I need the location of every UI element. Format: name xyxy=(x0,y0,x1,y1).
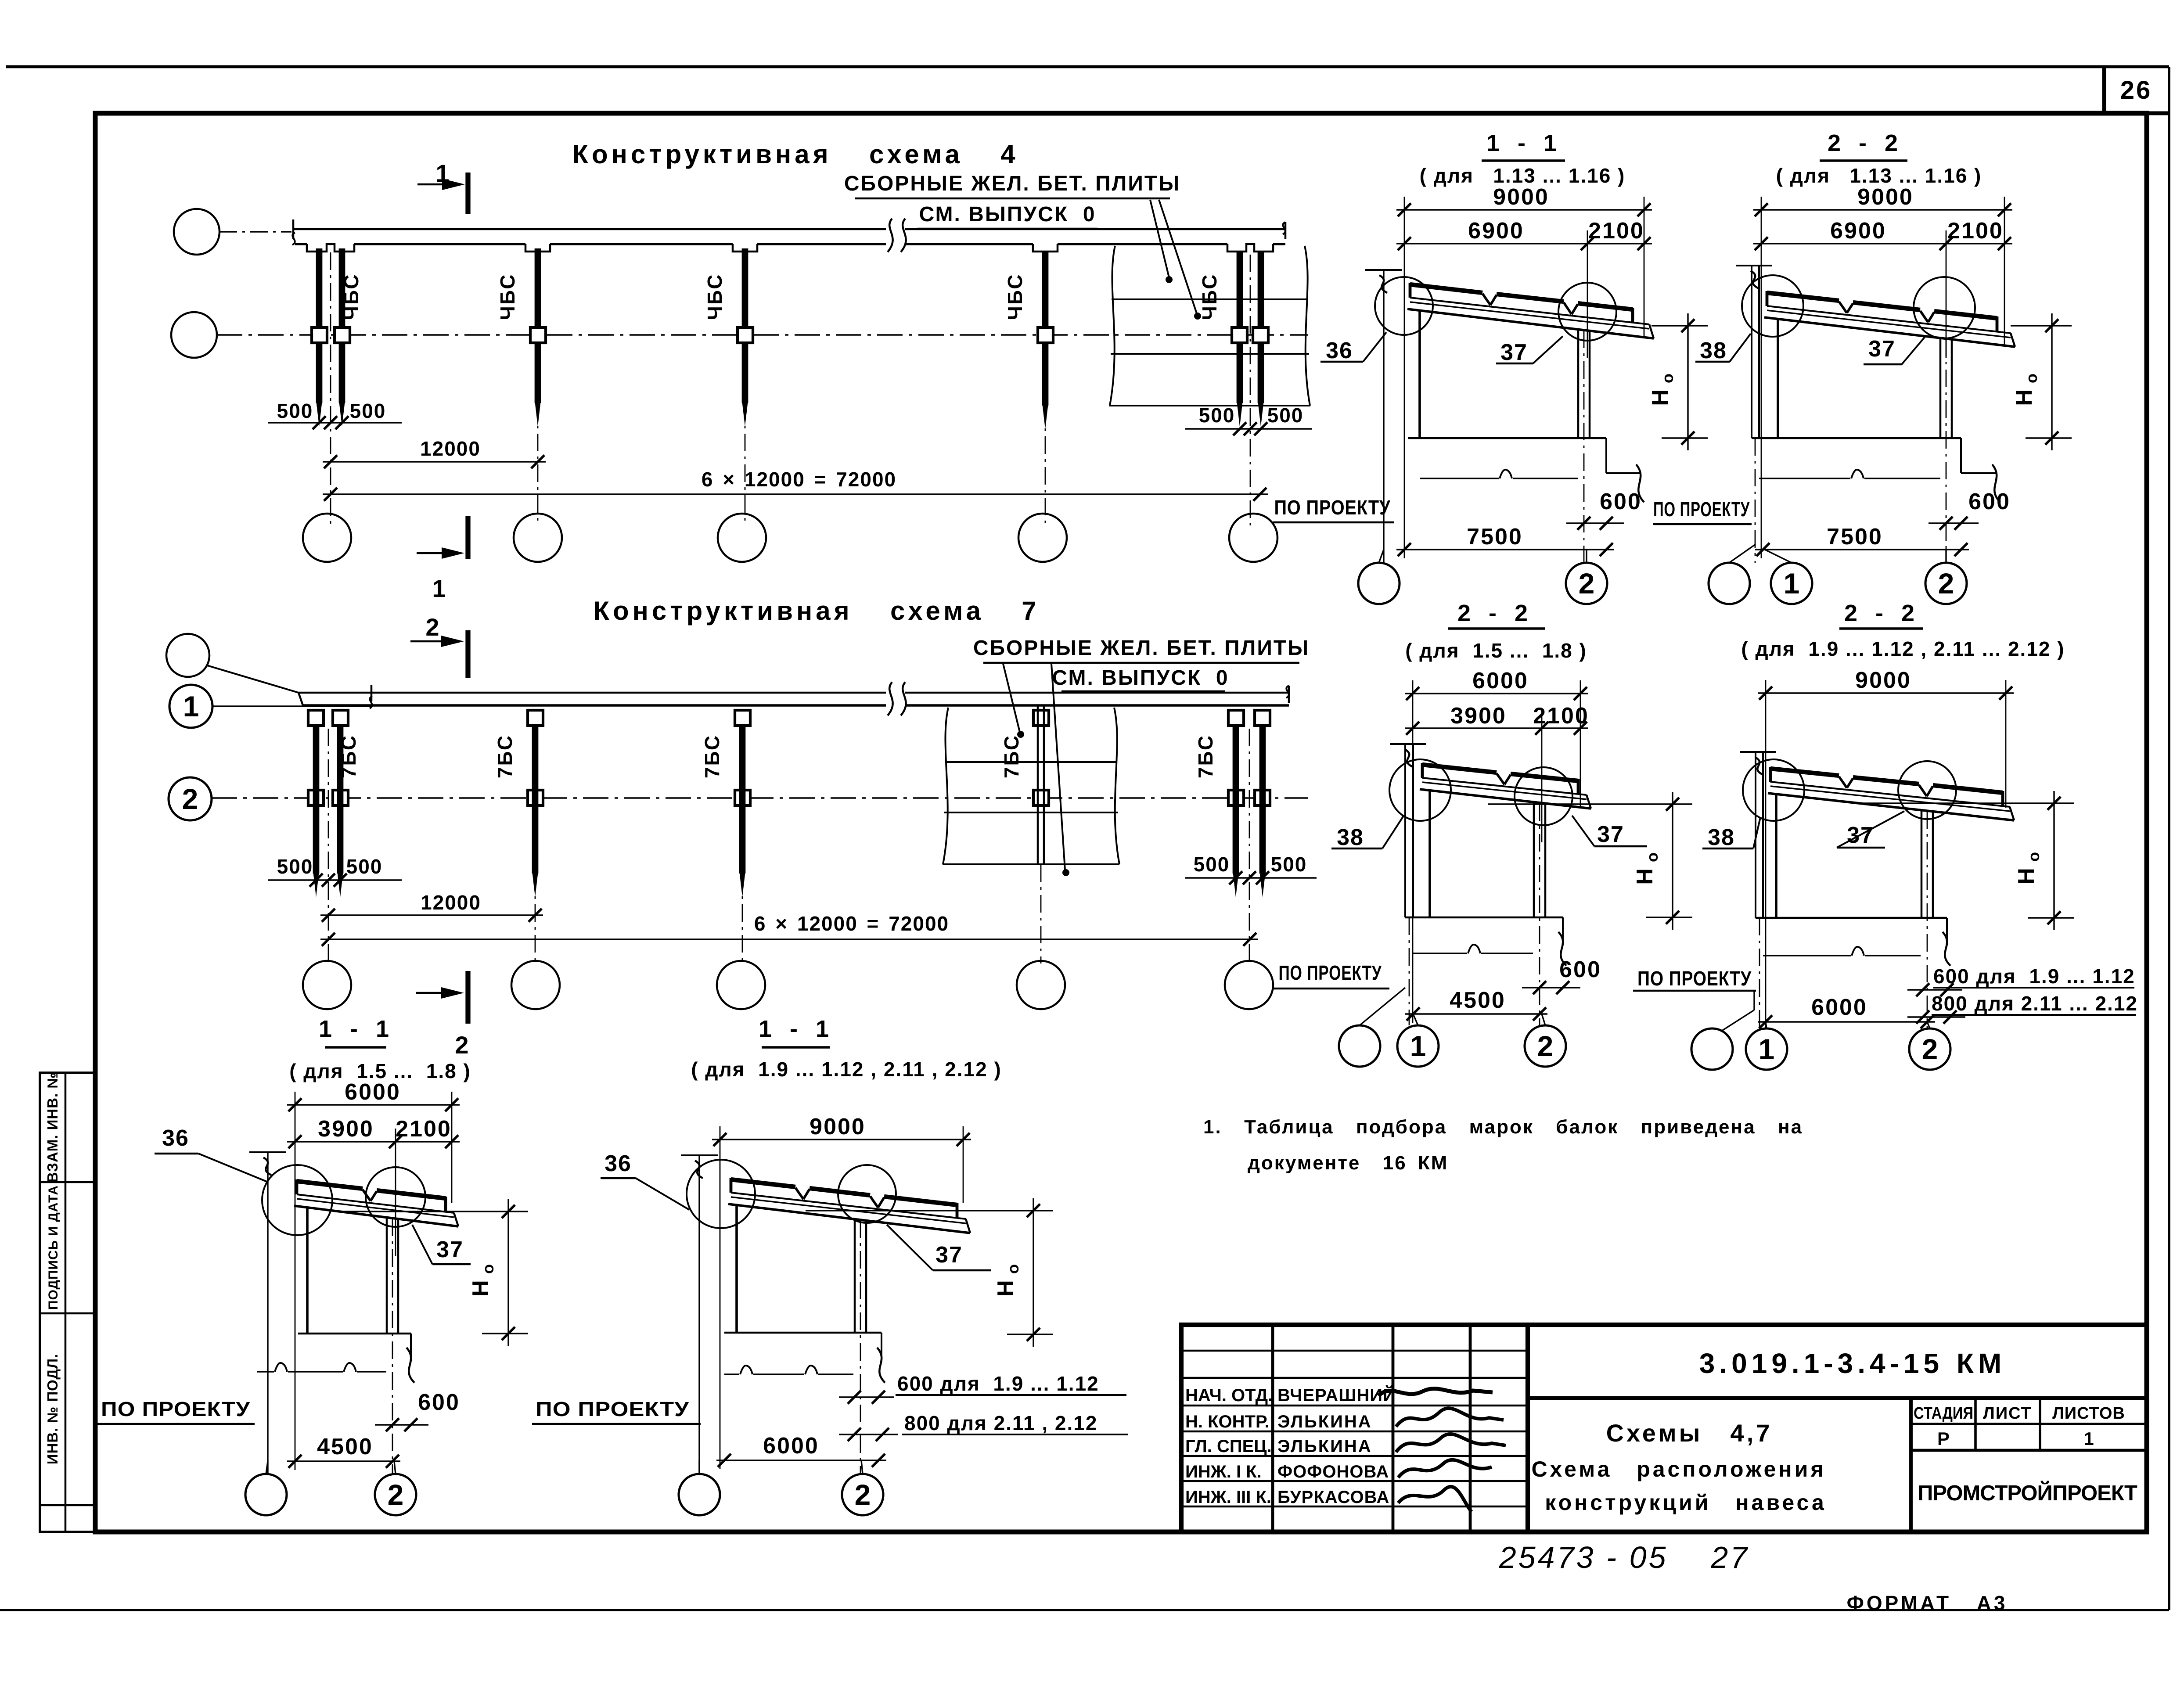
svg-text:800 для 2.11 ... 2.12: 800 для 2.11 ... 2.12 xyxy=(1932,992,2138,1015)
section 2-2 (1.5-1.8) right column axis xyxy=(1539,803,1540,1025)
svg-text:Н: Н xyxy=(1632,868,1658,885)
svg-text:38: 38 xyxy=(1337,825,1364,850)
svg-text:о: о xyxy=(1643,852,1661,862)
svg-text:СМ. ВЫПУСК 0: СМ. ВЫПУСК 0 xyxy=(1052,666,1229,690)
section 2-2 (1.13-1.16) bubble connectors xyxy=(1729,544,1756,563)
plan 2 column pair right axis xyxy=(1249,729,1250,963)
svg-text:6000: 6000 xyxy=(1811,995,1867,1020)
plan 2 dimension 6x12000=72000 xyxy=(320,938,1258,940)
section 2-2 (1.13-1.16) left wall xyxy=(1736,265,1772,266)
section 2-2 (1.5-1.8) dimension 3900-2100 xyxy=(1405,727,1588,729)
section 1-1 (1.9-2.12) bubble connectors xyxy=(698,1460,700,1474)
plan 1 beam break mark xyxy=(888,219,893,252)
svg-text:Н: Н xyxy=(2014,868,2039,884)
svg-text:ПО ПРОЕКТУ: ПО ПРОЕКТУ xyxy=(1274,496,1391,519)
section 1-1 (1.5-1.8) bubble connectors xyxy=(266,1461,268,1474)
svg-text:1: 1 xyxy=(1759,1033,1775,1065)
svg-text:7500: 7500 xyxy=(1467,524,1523,550)
svg-text:6000: 6000 xyxy=(763,1433,819,1459)
roof precast plates xyxy=(297,1181,363,1189)
svg-text:2 - 2: 2 - 2 xyxy=(1844,600,1918,626)
svg-text:3.019.1-3.4-15 КМ: 3.019.1-3.4-15 КМ xyxy=(1699,1348,2006,1379)
plan 2 node squares on grid 2 xyxy=(308,790,324,805)
section 1-1 (1.9-2.12) detail circle left xyxy=(687,1160,755,1228)
plan 2 grid line 1 xyxy=(212,705,371,707)
svg-text:1: 1 xyxy=(183,690,199,723)
svg-text:СБОРНЫЕ ЖЕЛ. БЕТ. ПЛИТЫ: СБОРНЫЕ ЖЕЛ. БЕТ. ПЛИТЫ xyxy=(973,636,1310,660)
section 2-2 (1.13-1.16) dimension 600 xyxy=(1929,522,1979,524)
svg-text:ЧБС: ЧБС xyxy=(703,273,726,320)
svg-text:ПО ПРОЕКТУ: ПО ПРОЕКТУ xyxy=(1637,967,1752,990)
svg-text:( для 1.13 ... 1.16 ): ( для 1.13 ... 1.16 ) xyxy=(1776,164,1982,187)
section 2-2 (1.13-1.16) left wall axis below base xyxy=(1755,438,1756,563)
margin table column divider xyxy=(65,1073,67,1532)
plan 1 beam left end tick xyxy=(292,219,295,239)
svg-text:ЛИСТ: ЛИСТ xyxy=(1983,1404,2032,1423)
svg-text:1 - 1: 1 - 1 xyxy=(1486,130,1560,156)
plan 2 column pair left axis xyxy=(328,729,329,963)
section 2-2 (1.13-1.16) dimension 6900-2100 xyxy=(1753,243,2012,244)
svg-text:800 для 2.11 , 2.12: 800 для 2.11 , 2.12 xyxy=(904,1412,1097,1434)
section 2-2 (1.13-1.16) grid bubbles xyxy=(1709,563,1750,604)
svg-text:ЧБС: ЧБС xyxy=(340,273,363,320)
plan 1 dimension 500-500 left xyxy=(268,422,402,423)
svg-text:1: 1 xyxy=(432,575,446,602)
section 1-1 (1.13-1.16) dimension 9000 xyxy=(1396,209,1652,210)
svg-text:9000: 9000 xyxy=(810,1114,866,1140)
section 2-2 (1.13-1.16) foundation step xyxy=(1960,438,1962,473)
svg-text:Н: Н xyxy=(993,1280,1018,1297)
svg-text:Конструктивная схема 7: Конструктивная схема 7 xyxy=(593,596,1040,626)
section 1-1 (1.13-1.16) detail circle right xyxy=(1558,283,1616,341)
svg-text:СБОРНЫЕ ЖЕЛ. БЕТ. ПЛИТЫ: СБОРНЫЕ ЖЕЛ. БЕТ. ПЛИТЫ xyxy=(844,172,1180,195)
plan 2 column 3 xyxy=(739,725,746,874)
plan 2 column taper tips xyxy=(313,873,319,897)
sheet top border line xyxy=(6,65,2169,68)
plan 2 grid circle top xyxy=(166,634,209,677)
margin table cell divider 3 xyxy=(40,1504,95,1506)
section 2-2 (1.13-1.16) base line xyxy=(1752,437,1961,439)
section 2-2 (1.13-1.16) detail circle left xyxy=(1742,275,1803,337)
plan 2 plate note leaders xyxy=(1003,664,1020,732)
svg-text:о: о xyxy=(479,1264,497,1274)
section 2-2 (1.9-2.12) base line xyxy=(1756,917,1947,919)
plan 2 precast plates region xyxy=(943,708,948,864)
section 1-1 (1.5-1.8) dimension 600 xyxy=(375,1424,428,1425)
section 1-1 (1.9-2.12) ground break line xyxy=(724,1373,853,1375)
section 2-2 (1.5-1.8) foundation step xyxy=(1562,917,1564,941)
section 2-2 (1.13-1.16) right column axis xyxy=(1946,339,1947,563)
section 2-2 (1.9-2.12) canopy column right xyxy=(1921,809,1923,918)
plan 1 column pair right axis xyxy=(1250,255,1251,525)
section 1-1 (1.9-2.12) dimension Ho xyxy=(1033,1198,1034,1347)
svg-text:ЧБС: ЧБС xyxy=(1004,273,1026,320)
roof beam xyxy=(1767,306,2011,333)
section 2-2 (1.13-1.16) detail circle right xyxy=(1914,277,1975,338)
svg-text:документе 16 КМ: документе 16 КМ xyxy=(1248,1152,1448,1174)
roof beam xyxy=(1770,782,2010,807)
svg-text:Н: Н xyxy=(2011,389,2037,406)
svg-text:ПОДПИСЬ И ДАТА: ПОДПИСЬ И ДАТА xyxy=(46,1185,61,1310)
section 1-1 (1.5-1.8) grid bubbles xyxy=(245,1474,287,1515)
svg-text:1: 1 xyxy=(1410,1030,1426,1062)
svg-text:НАЧ. ОТД.: НАЧ. ОТД. xyxy=(1185,1386,1273,1405)
plan 2 dimension 500-500 right xyxy=(1185,877,1317,878)
section 2-2 (1.5-1.8) grid bubbles xyxy=(1339,1025,1380,1067)
svg-text:4500: 4500 xyxy=(317,1434,373,1460)
svg-text:ЛИСТОВ: ЛИСТОВ xyxy=(2052,1404,2125,1423)
plan 1 grid line 1 xyxy=(219,231,291,232)
section 1-1 (1.5-1.8) dimension 3900-2100 xyxy=(287,1141,460,1142)
section 1-1 (1.5-1.8) right column axis xyxy=(392,1219,393,1474)
roof beam xyxy=(1410,298,1649,324)
svg-text:500: 500 xyxy=(277,399,313,422)
title block signature table verticals xyxy=(1271,1325,1274,1532)
section 1-1 (1.13-1.16) base line xyxy=(1408,437,1606,439)
svg-text:26: 26 xyxy=(2120,76,2152,104)
plan 2 column pair left xyxy=(313,725,320,874)
svg-text:( для 1.5 ... 1.8 ): ( для 1.5 ... 1.8 ) xyxy=(1405,639,1587,662)
plan 2 beam right end tick xyxy=(1286,686,1289,698)
svg-text:4500: 4500 xyxy=(1450,988,1506,1013)
section 2-2 (1.13-1.16) dimension 9000 xyxy=(1753,209,2012,210)
svg-text:500: 500 xyxy=(1194,853,1230,876)
svg-text:2 - 2: 2 - 2 xyxy=(1457,600,1531,626)
section 1-1 (1.5-1.8) detail circle right xyxy=(366,1167,425,1227)
svg-text:36: 36 xyxy=(1326,338,1353,363)
title block left-middle divider xyxy=(1526,1325,1530,1532)
plan 2 grid circle 2 xyxy=(169,777,212,820)
plan 1 precast plates region xyxy=(1110,246,1115,406)
svg-text:500: 500 xyxy=(350,399,386,422)
svg-text:9000: 9000 xyxy=(1493,184,1549,210)
drawing frame xyxy=(95,113,2147,1532)
svg-text:1 - 1: 1 - 1 xyxy=(319,1016,392,1042)
svg-text:2: 2 xyxy=(1922,1033,1938,1065)
plan 1 column 4 xyxy=(1042,252,1049,406)
svg-text:36: 36 xyxy=(604,1151,632,1176)
svg-text:2100: 2100 xyxy=(396,1116,452,1142)
plan 2 leader from top circle to beam xyxy=(207,665,299,693)
svg-text:Конструктивная схема 4: Конструктивная схема 4 xyxy=(572,140,1018,169)
svg-text:6900: 6900 xyxy=(1468,218,1524,244)
svg-text:Схема расположения: Схема расположения xyxy=(1531,1457,1826,1481)
svg-text:ЧБС: ЧБС xyxy=(496,273,519,320)
svg-text:37: 37 xyxy=(1597,822,1624,847)
svg-text:37: 37 xyxy=(436,1237,464,1262)
title block outline xyxy=(1181,1325,2147,1532)
section 1-1 (1.5-1.8) dimension Ho xyxy=(507,1199,509,1346)
plan 2 dimension 12000 xyxy=(320,914,543,916)
roof precast plates xyxy=(1422,765,1497,773)
svg-text:7БС: 7БС xyxy=(337,734,360,778)
svg-text:о: о xyxy=(1004,1264,1022,1274)
plan 2 beam break mark xyxy=(888,682,893,715)
svg-text:600 для 1.9 ... 1.12: 600 для 1.9 ... 1.12 xyxy=(1933,965,2135,988)
plan 1 column taper tips xyxy=(317,402,322,427)
svg-text:ПО ПРОЕКТУ: ПО ПРОЕКТУ xyxy=(1279,961,1382,984)
section 1-1 (1.9-2.12) right column axis xyxy=(860,1220,861,1474)
svg-text:600: 600 xyxy=(1968,489,2011,514)
svg-text:2: 2 xyxy=(388,1478,404,1511)
plan 1 column pair right xyxy=(1237,252,1243,403)
section 2-2 (1.9-2.12) right column axis xyxy=(1927,811,1928,1028)
svg-text:500: 500 xyxy=(277,855,313,878)
section 2-2 (1.13-1.16) ground break line xyxy=(1759,478,1940,479)
svg-text:6 × 12000 = 72000: 6 × 12000 = 72000 xyxy=(702,468,896,491)
section 2-2 (1.9-2.12) bubble connectors xyxy=(1721,1010,1754,1031)
section 1-1 (1.5-1.8) foundation step xyxy=(410,1334,412,1356)
section 1-1 (1.13-1.16) dimension 7500 xyxy=(1396,549,1614,550)
roof beam xyxy=(1422,778,1587,795)
svg-text:500: 500 xyxy=(346,855,383,878)
svg-text:1 - 1: 1 - 1 xyxy=(759,1016,832,1042)
section 2-2 (1.5-1.8) dimension 4500 xyxy=(1405,1013,1547,1014)
section 1-1 (1.13-1.16) foundation step xyxy=(1605,438,1607,473)
svg-text:Р: Р xyxy=(1937,1428,1950,1449)
svg-text:ВЗАМ. ИНВ. №: ВЗАМ. ИНВ. № xyxy=(44,1072,61,1183)
svg-text:Н: Н xyxy=(468,1280,493,1297)
plan 2 bottom grid circles xyxy=(303,961,351,1009)
section 1-1 (1.13-1.16) canopy column right xyxy=(1577,328,1580,438)
plan 1 column 2 xyxy=(535,248,541,403)
svg-text:ЭЛЬКИНА: ЭЛЬКИНА xyxy=(1277,1412,1372,1431)
svg-text:ПО ПРОЕКТУ: ПО ПРОЕКТУ xyxy=(536,1398,689,1420)
svg-text:2: 2 xyxy=(182,783,198,815)
sheet bottom border line xyxy=(0,1609,2169,1611)
section 2-2 (1.9-2.12) dimension 9000 xyxy=(1758,692,2014,694)
svg-text:6900: 6900 xyxy=(1830,218,1886,244)
section 1-1 (1.9-2.12) left wall pole xyxy=(681,1154,718,1156)
svg-text:12000: 12000 xyxy=(421,891,481,914)
svg-text:2: 2 xyxy=(1537,1030,1554,1062)
section 2-2 (1.5-1.8) left wall xyxy=(1390,743,1426,745)
svg-text:ЧБС: ЧБС xyxy=(1198,273,1221,320)
section 2-2 (1.5-1.8) dimension Ho xyxy=(1672,792,1673,930)
section 1-1 (1.9-2.12) detail circle right xyxy=(838,1165,896,1223)
roof precast plates xyxy=(1410,284,1482,293)
svg-text:37: 37 xyxy=(935,1242,963,1268)
section 1-1 (1.13-1.16) canopy column left xyxy=(1418,310,1421,438)
svg-text:Схемы 4,7: Схемы 4,7 xyxy=(1606,1419,1773,1447)
svg-text:о: о xyxy=(2025,852,2043,862)
section 1-1 (1.5-1.8) dimension 4500 xyxy=(287,1460,400,1462)
svg-text:37: 37 xyxy=(1500,340,1528,365)
title block signature scribbles xyxy=(1378,1389,1493,1396)
svg-text:2: 2 xyxy=(455,1031,468,1059)
section 2-2 (1.5-1.8) dimension 600 xyxy=(1522,987,1580,988)
svg-text:Н: Н xyxy=(1648,389,1673,406)
section 2-2 (1.5-1.8) bubble connectors xyxy=(1360,988,1405,1025)
section 1-1 (1.9-2.12) dimension 6000 xyxy=(716,1460,886,1461)
section 2-2 (1.5-1.8) detail circle right xyxy=(1515,767,1572,825)
svg-text:6 × 12000 = 72000: 6 × 12000 = 72000 xyxy=(754,912,949,935)
svg-text:о: о xyxy=(2022,374,2040,383)
plan 2 beam top chord xyxy=(299,692,886,694)
section 1-1 (1.5-1.8) canopy column left xyxy=(306,1208,309,1334)
section 1-1 (1.5-1.8) detail circle left xyxy=(262,1165,332,1235)
svg-text:2: 2 xyxy=(855,1478,871,1511)
svg-text:36: 36 xyxy=(162,1125,189,1151)
svg-text:25473 - 05 27: 25473 - 05 27 xyxy=(1499,1540,1749,1575)
svg-text:2100: 2100 xyxy=(1947,218,2004,244)
svg-text:2: 2 xyxy=(425,613,439,641)
svg-text:500: 500 xyxy=(1267,404,1304,427)
svg-text:ИНВ. № ПОДЛ.: ИНВ. № ПОДЛ. xyxy=(44,1354,61,1464)
svg-text:ЭЛЬКИНА: ЭЛЬКИНА xyxy=(1277,1437,1372,1456)
svg-text:конструкций навеса: конструкций навеса xyxy=(1545,1490,1827,1515)
plan 1 column 3 xyxy=(742,248,748,403)
section 1-1 (1.5-1.8) canopy column right xyxy=(386,1217,388,1334)
plan 1 plate note leaders xyxy=(1150,200,1169,277)
section 2-2 (1.13-1.16) dimension 7500 xyxy=(1755,549,1969,550)
section 2-2 (1.9-2.12) ground break line xyxy=(1763,955,1921,956)
section 2-2 (1.9-2.12) dimension 6000 xyxy=(1758,1021,1935,1022)
svg-text:6000: 6000 xyxy=(345,1079,401,1105)
svg-text:7500: 7500 xyxy=(1827,524,1883,550)
section 2-2 (1.5-1.8) ground break line xyxy=(1413,953,1533,954)
margin table cell divider 1 xyxy=(40,1181,95,1183)
section 1-1 (1.13-1.16) bubble connectors xyxy=(1379,550,1384,563)
section 2-2 (1.13-1.16) canopy column right xyxy=(1939,337,1942,438)
section 1-1 (1.13-1.16) ground break line xyxy=(1420,478,1578,479)
svg-text:СМ. ВЫПУСК 0: СМ. ВЫПУСК 0 xyxy=(919,203,1096,226)
title block doc cell divider xyxy=(1528,1396,2147,1400)
svg-text:3900: 3900 xyxy=(1450,703,1507,729)
svg-text:ПО ПРОЕКТУ: ПО ПРОЕКТУ xyxy=(1653,498,1750,521)
section 1-1 (1.13-1.16) detail circle left xyxy=(1375,277,1433,335)
svg-text:ПРОМСТРОЙПРОЕКТ: ПРОМСТРОЙПРОЕКТ xyxy=(1918,1481,2137,1505)
section 1-1 (1.9-2.12) grid bubbles xyxy=(679,1474,720,1515)
section 2-2 (1.9-2.12) grid bubbles xyxy=(1691,1028,1733,1070)
section 2-2 (1.9-2.12) canopy column left xyxy=(1775,794,1777,918)
svg-text:9000: 9000 xyxy=(1855,668,1911,693)
svg-text:38: 38 xyxy=(1708,825,1735,850)
svg-text:7БС: 7БС xyxy=(493,734,516,778)
plan 1 beam top chord xyxy=(293,228,886,230)
margin table cell divider 2 xyxy=(40,1312,95,1315)
svg-text:Н. КОНТР.: Н. КОНТР. xyxy=(1185,1412,1270,1431)
roof beam xyxy=(297,1194,454,1213)
plan 2 beam bottom chord xyxy=(303,704,886,707)
plan 1 beam bottom chord with notches xyxy=(295,243,307,245)
svg-text:7БС: 7БС xyxy=(1194,734,1217,778)
plan 2 node squares under beam xyxy=(308,710,324,726)
section 2-2 (1.5-1.8) canopy column left xyxy=(1428,791,1431,917)
section 2-2 (1.9-2.12) dimension Ho xyxy=(2053,791,2054,930)
plan 1 section mark 1 bottom xyxy=(417,552,443,554)
plan 2 beam left end xyxy=(299,693,303,705)
section 1-1 (1.9-2.12) foundation step xyxy=(881,1333,882,1356)
section 1-1 (1.13-1.16) dimension 6900-2100 xyxy=(1396,243,1652,244)
plan 1 beam right end tick xyxy=(1283,222,1285,234)
svg-text:ГЛ. СПЕЦ.: ГЛ. СПЕЦ. xyxy=(1185,1437,1272,1456)
svg-text:ФОРМАТ А3: ФОРМАТ А3 xyxy=(1847,1592,2008,1614)
svg-text:600: 600 xyxy=(1600,489,1642,514)
section 1-1 (1.13-1.16) left wall pole xyxy=(1365,269,1402,271)
plan 1 grid line 2 xyxy=(217,334,1308,335)
svg-text:1. Таблица подбора марок б: 1. Таблица подбора марок балок приведена… xyxy=(1203,1116,1803,1138)
svg-text:500: 500 xyxy=(1199,404,1235,427)
section 2-2 (1.5-1.8) canopy column right xyxy=(1533,801,1535,917)
plan 2 column pair right xyxy=(1233,725,1239,874)
svg-text:600 для 1.9 ... 1.12: 600 для 1.9 ... 1.12 xyxy=(897,1372,1099,1395)
svg-text:ФОФОНОВА: ФОФОНОВА xyxy=(1277,1462,1389,1481)
svg-text:3900: 3900 xyxy=(318,1116,374,1142)
plan 1 column pair left xyxy=(316,248,323,403)
plan 1 grid circle row 1 xyxy=(174,209,219,255)
svg-text:12000: 12000 xyxy=(420,437,481,460)
section 1-1 (1.13-1.16) right column axis xyxy=(1583,331,1585,563)
sheet right border line xyxy=(2168,67,2170,1610)
roof beam xyxy=(731,1193,966,1219)
title block signature table rows xyxy=(1181,1350,1528,1352)
svg-text:9000: 9000 xyxy=(1857,184,1914,210)
plan 2 column 2 xyxy=(532,725,539,874)
section 2-2 (1.9-2.12) left wall xyxy=(1740,751,1776,753)
svg-text:ПО ПРОЕКТУ: ПО ПРОЕКТУ xyxy=(101,1398,250,1420)
svg-text:38: 38 xyxy=(1700,338,1727,363)
section 1-1 (1.9-2.12) canopy column left xyxy=(735,1205,738,1333)
svg-text:600: 600 xyxy=(418,1390,460,1415)
section 1-1 (1.9-2.12) dimension 9000 xyxy=(712,1139,971,1140)
roof precast plates xyxy=(1767,293,1839,301)
section 2-2 (1.9-2.12) detail circle left xyxy=(1743,759,1804,821)
plan 1 dimension 500-500 right xyxy=(1185,428,1312,429)
section 1-1 (1.9-2.12) canopy column right xyxy=(854,1219,856,1333)
svg-text:СТАДИЯ: СТАДИЯ xyxy=(1914,1404,1973,1423)
plan 1 grid circle row 2 xyxy=(171,312,217,358)
page number box 26 xyxy=(2102,67,2106,113)
section 2-2 (1.5-1.8) base line xyxy=(1405,917,1563,919)
section 1-1 (1.5-1.8) left wall pole xyxy=(249,1151,286,1153)
svg-text:1: 1 xyxy=(1784,567,1800,600)
svg-text:7БС: 7БС xyxy=(701,734,723,778)
svg-text:ИНЖ. I К.: ИНЖ. I К. xyxy=(1185,1462,1262,1481)
section 1-1 (1.13-1.16) dimension 600 xyxy=(1566,522,1624,524)
section 1-1 (1.13-1.16) grid bubbles xyxy=(1358,563,1400,604)
section 2-2 (1.9-2.12) detail circle right xyxy=(1898,761,1956,819)
section 2-2 (1.5-1.8) dimension 6000 xyxy=(1405,693,1588,694)
svg-text:6000: 6000 xyxy=(1472,668,1529,694)
roof precast plates xyxy=(731,1179,795,1187)
section 2-2 (1.13-1.16) dimension Ho xyxy=(2051,313,2052,450)
svg-text:2: 2 xyxy=(1938,567,1954,600)
svg-text:1: 1 xyxy=(2083,1428,2094,1449)
svg-text:2100: 2100 xyxy=(1588,218,1644,244)
roof precast plates xyxy=(1770,769,1839,776)
section 1-1 (1.5-1.8) ground break line xyxy=(257,1371,386,1372)
svg-text:600: 600 xyxy=(1559,957,1601,982)
svg-text:37: 37 xyxy=(1868,336,1896,362)
plan 2 column at plates xyxy=(1037,705,1039,864)
section 1-1 (1.13-1.16) dimension Ho xyxy=(1687,313,1688,450)
plan 2 grid line 2 xyxy=(212,797,1308,798)
section 1-1 (1.5-1.8) dimension 6000 xyxy=(287,1104,460,1105)
plan 1 bottom grid circles xyxy=(303,514,351,562)
plan 2 grid circle 1 xyxy=(169,685,212,728)
frame top extension to sheet edge xyxy=(2147,111,2169,115)
svg-text:( для 1.9 ... 1.12 , 2.11 , 2: ( для 1.9 ... 1.12 , 2.11 , 2.12 ) xyxy=(691,1058,1002,1081)
plan 1 column pair left axis xyxy=(330,252,331,525)
plan 1 dimension 12000 xyxy=(323,461,546,462)
svg-text:500: 500 xyxy=(1271,853,1307,876)
section 2-2 (1.13-1.16) canopy column left xyxy=(1777,319,1779,438)
svg-text:2: 2 xyxy=(1579,567,1595,600)
plan 2 section mark 2 bottom xyxy=(416,992,442,994)
svg-text:БУРКАСОВА: БУРКАСОВА xyxy=(1277,1488,1389,1507)
plan 2 dimension 500-500 left xyxy=(268,879,402,881)
